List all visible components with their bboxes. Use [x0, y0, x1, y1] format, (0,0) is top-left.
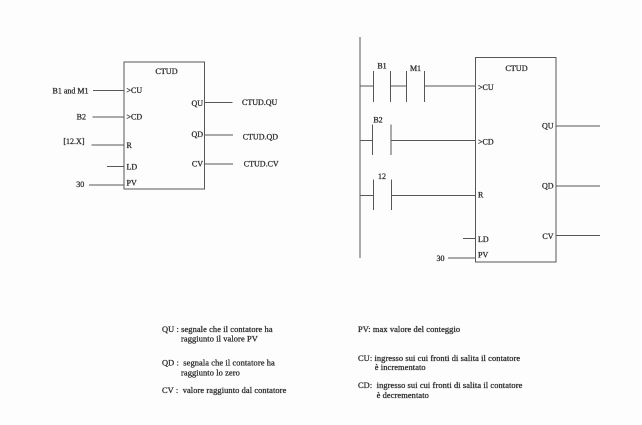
svg-text:12: 12 [378, 172, 386, 181]
svg-text:B1: B1 [377, 61, 386, 70]
svg-text:PV: PV [127, 178, 137, 187]
wire 30 to U2 pin PV [448, 257, 476, 259]
svg-text:R: R [127, 141, 133, 150]
svg-text:CV : valore raggiunto dal con: CV : valore raggiunto dal contatore [162, 386, 287, 395]
svg-text:M1: M1 [410, 64, 421, 73]
wire U2 pin CV output [556, 235, 600, 237]
svg-text:QD : segnala che il contatore: QD : segnala che il contatore ha [162, 359, 275, 368]
svg-text:PV: max valore del conteggio: PV: max valore del conteggio [358, 325, 460, 334]
function block U2 CTUD (ladder form) [476, 58, 557, 263]
svg-text:è decrementato: è decrementato [377, 391, 429, 400]
svg-text:QD: QD [191, 130, 203, 139]
left power rail [359, 37, 361, 258]
wire 30 to U1 pin PV [89, 184, 124, 186]
function block U1 CTUD (FBD form) [124, 62, 205, 189]
wire contact M1 to U2 pin CU [425, 85, 476, 87]
svg-text:CTUD: CTUD [505, 64, 527, 73]
wire U1 pin QD to CTUD.QD [205, 134, 234, 136]
wire rail to contact B2 [360, 139, 373, 141]
contact B1 [373, 71, 390, 102]
svg-text:CTUD.QU: CTUD.QU [242, 98, 278, 107]
wire U2 pin QD output [556, 185, 600, 187]
wire stub U1 pin LD [107, 165, 124, 167]
wire U1 pin CV to CTUD.CV [205, 163, 234, 165]
svg-text:>CD: >CD [478, 137, 494, 146]
svg-text:30: 30 [76, 180, 84, 189]
wire U2 pin QU output [556, 125, 600, 127]
svg-text:30: 30 [437, 254, 445, 263]
contact B2 [373, 125, 391, 156]
svg-text:LD: LD [478, 235, 489, 244]
svg-text:CD: ingresso sui cui fronti d: CD: ingresso sui cui fronti di salita il… [358, 381, 523, 390]
wire B1andM1 to U1 pin CU [93, 90, 124, 92]
svg-text:>CD: >CD [127, 113, 143, 122]
svg-text:è incrementato: è incrementato [375, 363, 426, 372]
wire contact B1 to contact M1 [390, 85, 406, 87]
wire rail to contact B1 [360, 85, 373, 87]
wire contact B2 to U2 pin CD [391, 139, 476, 141]
wire contact 12 to U2 pin R [392, 194, 476, 196]
wire rail to contact 12 [360, 194, 373, 196]
svg-text:QU: QU [191, 99, 203, 108]
wire U1 pin QU to CTUD.QU [205, 102, 233, 104]
svg-text:QU: QU [542, 122, 554, 131]
svg-text:QU : segnale che il contatore: QU : segnale che il contatore ha [162, 325, 273, 334]
wire 12.X to U1 pin R [92, 144, 125, 146]
svg-text:B2: B2 [373, 115, 382, 124]
svg-text:R: R [478, 191, 484, 200]
wire stub U2 pin LD [463, 238, 476, 240]
svg-text:>CU: >CU [127, 86, 143, 95]
svg-text:LD: LD [127, 163, 138, 172]
svg-text:>CU: >CU [478, 83, 494, 92]
svg-text:CV: CV [192, 159, 203, 168]
svg-text:B2: B2 [77, 112, 86, 121]
svg-text:CV: CV [542, 232, 553, 241]
svg-text:CTUD: CTUD [155, 67, 177, 76]
svg-text:CU: ingresso sui cui fronti d: CU: ingresso sui cui fronti di salita il… [358, 354, 520, 363]
svg-text:QD: QD [542, 181, 554, 190]
contact M1 [406, 71, 424, 102]
svg-text:PV: PV [478, 251, 488, 260]
svg-text:raggiunto lo zero: raggiunto lo zero [181, 368, 240, 377]
svg-text:CTUD.QD: CTUD.QD [243, 133, 279, 142]
contact 12 [373, 180, 391, 211]
svg-text:raggiunto il valore PV: raggiunto il valore PV [181, 335, 258, 344]
svg-text:[12.X]: [12.X] [63, 137, 84, 146]
svg-text:CTUD.CV: CTUD.CV [244, 159, 279, 168]
wire B2 to U1 pin CD [93, 116, 125, 118]
svg-text:B1 and M1: B1 and M1 [53, 86, 89, 95]
